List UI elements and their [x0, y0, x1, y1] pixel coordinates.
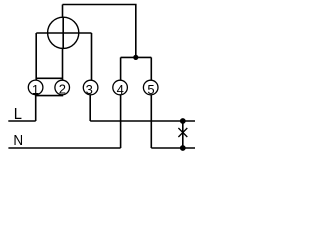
- svg-text:4: 4: [117, 82, 124, 97]
- svg-text:2: 2: [59, 82, 66, 97]
- svg-text:5: 5: [147, 82, 154, 97]
- svg-text:3: 3: [86, 82, 93, 97]
- svg-text:1: 1: [32, 82, 39, 97]
- svg-text:L: L: [14, 106, 22, 123]
- svg-text:N: N: [13, 132, 23, 149]
